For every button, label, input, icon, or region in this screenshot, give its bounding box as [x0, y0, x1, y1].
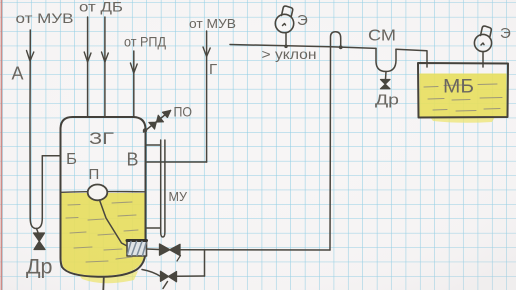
- wire: line A from МУВ down to U-trap: [29, 30, 31, 218]
- vessel centre bottom drain stub: [102, 277, 105, 290]
- svg-text:Э: Э: [500, 25, 511, 42]
- svg-text:Др: Др: [375, 92, 399, 109]
- vessel ЗГ: outline (rounded top, curved bottom): [61, 117, 146, 277]
- tank МБ: outline: [418, 63, 508, 118]
- svg-text:Б: Б: [66, 151, 77, 168]
- tank МБ: liquid: [420, 74, 507, 117]
- wire: Б pipe from U-trap leg into vessel: [42, 155, 60, 157]
- svg-text:от РПД: от РПД: [124, 34, 166, 50]
- stray pencil tick below outlet valve: [177, 256, 181, 262]
- valve ПО: arrowhead: [163, 111, 171, 118]
- float П: ball: [88, 185, 108, 201]
- valve Др (left): hourglass: [34, 233, 46, 250]
- vessel liquid dashes: [66, 202, 138, 262]
- svg-text:Э: Э: [297, 12, 308, 29]
- svg-text:МУ: МУ: [169, 189, 188, 204]
- hatched slide box on vessel wall: [127, 241, 147, 257]
- valve ПО: bowtie on diagonal: [149, 115, 164, 129]
- svg-text:МБ: МБ: [443, 77, 474, 98]
- valve (outlet, bowtie): [160, 244, 181, 256]
- pump Э (right): stem into tank: [482, 52, 484, 67]
- junction dot pump stem: [284, 45, 288, 49]
- svg-text:ПО: ПО: [174, 104, 193, 120]
- vessel ЗГ: liquid: [62, 193, 146, 276]
- svg-text:от ДБ: от ДБ: [79, 0, 123, 15]
- wire: main drain run to riser: [180, 249, 330, 251]
- tank МБ: liquid spill below: [430, 117, 495, 123]
- pump Э (left): tick inside: [283, 24, 286, 26]
- junction drain branch: [204, 250, 206, 276]
- level gauge МУ: tube: [161, 140, 165, 237]
- liquid surface line: [61, 191, 146, 194]
- wire: vessel bottom to bottom valve: [142, 270, 161, 277]
- wire: branch to bottom valve: [177, 275, 205, 277]
- U-trap bottom bend: [30, 218, 42, 229]
- pump Э (left): circle body: [275, 14, 293, 32]
- float rod to slide box: [100, 200, 128, 246]
- wire: riser from drain line up to уклон pipe: [329, 47, 332, 250]
- wire: from slide box to outlet valve: [147, 248, 160, 251]
- wire: sloped уклон pipe: [230, 45, 376, 49]
- junction dot hook: [339, 45, 343, 49]
- wire: уклон pipe after СМ dip to МБ tank: [396, 49, 427, 67]
- valve (bottom drain, bowtie): [161, 271, 177, 281]
- svg-text:СМ: СМ: [368, 28, 396, 45]
- wire: РПД pipe into vessel top: [133, 51, 135, 117]
- pump Э (left): top flag: [282, 6, 293, 17]
- arrowhead Г pipe: [203, 47, 210, 57]
- svg-text:П: П: [89, 166, 100, 183]
- level gauge МУ: lower tap: [146, 227, 161, 229]
- arrowhead РПД pipe: [130, 63, 137, 73]
- svg-text:Др: Др: [26, 256, 53, 279]
- hook / loop where riser meets уклон pipe: [331, 32, 341, 47]
- wire: В pipe from vessel to Г riser: [146, 161, 207, 163]
- vessel ЗГ: liquid spill below bottom: [78, 271, 138, 283]
- pump Э (right): circle body: [474, 34, 491, 51]
- svg-text:А: А: [12, 64, 24, 84]
- red margin line: [1, 0, 3, 290]
- svg-text:ЗГ: ЗГ: [89, 129, 114, 148]
- wire: Г pipe down to В pipe: [206, 31, 208, 162]
- stub to valve Др (left): [37, 229, 39, 233]
- pump Э (right): top flag: [481, 26, 492, 36]
- pump Э (right): tick inside: [481, 43, 484, 45]
- svg-text:> уклон: > уклон: [262, 46, 317, 62]
- arrowhead on line A: [27, 51, 34, 62]
- СМ U-trap dip in pipe: [376, 48, 396, 71]
- wire: U-trap right leg: [41, 156, 43, 218]
- svg-text:от МУВ: от МУВ: [189, 16, 236, 31]
- arrowhead ДБ pipe 2: [102, 52, 109, 62]
- stub from СМ trap to valve: [385, 72, 388, 80]
- valve Др (under СМ): hourglass: [381, 80, 391, 89]
- valve ПО: diagonal line from vessel corner: [144, 111, 171, 133]
- level gauge МУ: upper tap: [146, 144, 161, 146]
- junction dot at vessel corner: [143, 128, 147, 132]
- svg-text:Г: Г: [209, 61, 217, 78]
- svg-text:от МУВ: от МУВ: [16, 10, 74, 26]
- arrowhead ДБ pipe 1: [84, 52, 91, 62]
- tank МБ: liquid dashes: [424, 84, 502, 111]
- wire: ДБ pipe 2 into vessel top: [104, 17, 106, 117]
- drain spout below bottom valve: [163, 282, 168, 289]
- pump Э (left): stem to pipe: [285, 33, 287, 47]
- wire: ДБ pipe 1 into vessel top: [87, 17, 89, 117]
- svg-text:В: В: [127, 150, 139, 170]
